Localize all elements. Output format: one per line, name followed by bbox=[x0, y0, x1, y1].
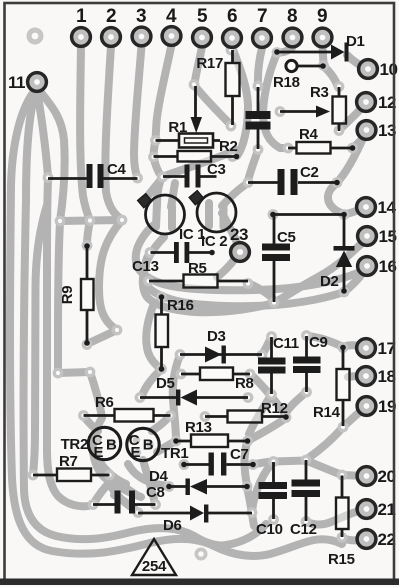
resistor R16 bbox=[156, 294, 194, 372]
wire pad19 to R14 bottom bbox=[344, 406, 367, 426]
wire C1 bottom to C2 left bbox=[248, 150, 258, 181]
diode D5 bbox=[140, 375, 248, 406]
wire R6 left to TR2 bbox=[84, 416, 99, 431]
wire R1 left to R2 left to C3 left bbox=[154, 140, 163, 177]
resistor R2 bbox=[154, 138, 240, 162]
wire C4 left pad down to C8 bbox=[47, 180, 92, 506]
svg-text:D4: D4 bbox=[149, 468, 169, 485]
resistor R15 bbox=[328, 476, 355, 569]
svg-text:B: B bbox=[106, 437, 117, 454]
wire pad3 to C4 right bbox=[134, 46, 142, 178]
svg-text:8: 8 bbox=[287, 6, 297, 27]
wire pad11 fan mid bbox=[24, 91, 266, 545]
wire pad13 to C2 right bbox=[337, 136, 364, 183]
resistor R3 bbox=[310, 84, 346, 131]
svg-text:7: 7 bbox=[257, 6, 267, 27]
wire pad7 to C1 top bbox=[258, 48, 262, 86]
capacitor C7 bbox=[181, 446, 256, 476]
wire pad5 to arrow pad bbox=[195, 47, 203, 84]
node pad 1 bbox=[72, 28, 91, 47]
node pad 9 bbox=[313, 28, 332, 47]
wire pad6 to R2 right bbox=[232, 47, 248, 156]
wire R4 right to pad13 bbox=[353, 133, 366, 148]
svg-text:R17: R17 bbox=[196, 55, 223, 72]
wire C10 top down to D6 right bbox=[252, 462, 274, 512]
wire TR1 area to D4 left bbox=[128, 464, 168, 486]
wire R13 left to TR1 bbox=[157, 441, 176, 452]
node pad 6 bbox=[223, 29, 242, 48]
node pad 8 bbox=[283, 28, 302, 47]
svg-text:23: 23 bbox=[230, 225, 248, 244]
svg-text:D2: D2 bbox=[320, 273, 339, 290]
node pad 20 bbox=[357, 467, 376, 486]
wire sweep pad15 across board bbox=[143, 240, 365, 312]
resistor R6 bbox=[84, 394, 171, 422]
svg-text:D3: D3 bbox=[207, 328, 226, 345]
svg-text:C9: C9 bbox=[309, 334, 328, 351]
node pad 2 bbox=[102, 28, 121, 47]
wire IC2 pin stubs bbox=[209, 203, 224, 227]
capacitor C8 bbox=[93, 484, 165, 514]
triangle 254 mark bbox=[132, 539, 176, 575]
node pad 13 bbox=[357, 121, 376, 140]
resistor R18 standing bbox=[273, 60, 326, 91]
node pad 12 bbox=[357, 93, 376, 112]
svg-text:IC 2: IC 2 bbox=[201, 233, 227, 250]
wire D2 bottom to pad16 bbox=[344, 270, 365, 292]
resistor R1 bbox=[156, 119, 221, 148]
wire TR2 bottom to D6 left bbox=[103, 470, 137, 511]
svg-text:R9: R9 bbox=[59, 286, 76, 305]
capacitor C2 bbox=[248, 164, 340, 195]
svg-text:1: 1 bbox=[76, 6, 87, 27]
wire sweep pad16 across board bbox=[144, 237, 344, 306]
node pad 19 bbox=[357, 397, 376, 416]
svg-text:R7: R7 bbox=[59, 453, 78, 470]
wire R7 right to TR area bbox=[110, 475, 139, 496]
node pad 21 bbox=[357, 500, 376, 519]
node pad 7 bbox=[253, 29, 272, 48]
wire R13 right down to D4 right bbox=[244, 441, 247, 485]
resistor R4 bbox=[288, 126, 355, 154]
wire C13 left into band bbox=[146, 253, 150, 266]
svg-text:C2: C2 bbox=[300, 164, 319, 181]
arrow at R3 bbox=[280, 106, 330, 118]
svg-text:C11: C11 bbox=[273, 335, 299, 352]
capacitor C1 bbox=[246, 87, 271, 149]
svg-text:11: 11 bbox=[8, 73, 25, 92]
resistor R14 bbox=[313, 345, 350, 426]
svg-text:R2: R2 bbox=[219, 138, 238, 155]
svg-text:TR2: TR2 bbox=[61, 436, 88, 453]
wire R9 bottom diagonal bbox=[87, 330, 117, 344]
wire R8 right down to R12 right bbox=[250, 374, 286, 417]
resistor R8 bbox=[181, 368, 254, 393]
wire pad2 down bbox=[105, 46, 122, 220]
svg-text:2: 2 bbox=[106, 6, 116, 27]
capacitor C9 bbox=[293, 334, 328, 392]
diode D6 bbox=[138, 505, 252, 535]
wire C4branch down to R7 bbox=[33, 205, 47, 474]
node pad 18 bbox=[357, 367, 376, 386]
resistor R13 bbox=[173, 419, 250, 447]
node pad 15 bbox=[358, 227, 377, 246]
svg-text:9: 9 bbox=[317, 6, 327, 27]
svg-text:E: E bbox=[93, 444, 103, 461]
svg-text:C10: C10 bbox=[256, 521, 283, 538]
svg-text:C12: C12 bbox=[290, 521, 317, 538]
capacitor C3 bbox=[163, 161, 226, 188]
svg-text:R6: R6 bbox=[95, 394, 114, 411]
svg-text:C3: C3 bbox=[207, 161, 226, 178]
svg-text:R5: R5 bbox=[188, 260, 207, 277]
wire R14 bottom down to C12 top bbox=[307, 427, 343, 459]
wire 374 row down to TR2 bbox=[90, 372, 110, 481]
wire pad18 stub bbox=[348, 376, 366, 377]
wire C5 top to D2 top bbox=[270, 212, 347, 218]
wire pad17 to R14 top to C9 top bbox=[307, 336, 366, 348]
transistor TR2 bbox=[61, 427, 121, 461]
IC1 can bbox=[138, 194, 206, 243]
wire D4 right down to wave bbox=[247, 487, 254, 526]
wire junction to R9 top bbox=[87, 221, 90, 245]
svg-text:R3: R3 bbox=[310, 84, 329, 101]
mount pad top-left bbox=[27, 28, 44, 45]
wire D6 left up-left bbox=[114, 495, 138, 513]
mount pad bottom-mid bbox=[195, 548, 208, 561]
wire TR tangle a bbox=[110, 481, 141, 497]
svg-text:C5: C5 bbox=[277, 229, 296, 246]
svg-text:254: 254 bbox=[142, 558, 167, 575]
capacitor C5 bbox=[262, 215, 296, 303]
svg-text:C7: C7 bbox=[230, 446, 249, 463]
capacitor C10 bbox=[256, 462, 287, 538]
wire C12 top to R15 top to pad20 bbox=[306, 461, 367, 477]
wire pad8 to D1 left bbox=[277, 47, 293, 53]
svg-text:R8: R8 bbox=[235, 375, 254, 392]
resistor R17 bbox=[196, 50, 239, 125]
capacitor C4 bbox=[48, 161, 138, 188]
wire R5 right to C5 bottom bbox=[248, 283, 274, 300]
svg-text:R13: R13 bbox=[185, 419, 212, 436]
svg-text:C8: C8 bbox=[146, 484, 165, 501]
IC2 can bbox=[189, 191, 236, 250]
svg-text:5: 5 bbox=[197, 6, 208, 27]
wire C7 right to C10 top bbox=[253, 462, 273, 465]
svg-text:B: B bbox=[143, 437, 154, 454]
wire junction 60 down to 374 row bbox=[58, 222, 60, 373]
node pad 22 bbox=[357, 530, 376, 549]
wire C9 bottom to R12 right bbox=[286, 392, 307, 413]
svg-text:6: 6 bbox=[227, 6, 237, 27]
svg-text:TR1: TR1 bbox=[161, 445, 188, 462]
svg-text:E: E bbox=[131, 444, 141, 461]
wire 374 row horizontal bbox=[58, 372, 90, 373]
wire pad11 to junction 60 bbox=[39, 90, 65, 221]
wire diagonal under R1 R2 bbox=[162, 150, 236, 177]
resistor R12 bbox=[205, 400, 289, 423]
wire TR1 bottom to C8 right bbox=[143, 460, 155, 503]
wire pad23 stub bbox=[217, 252, 240, 277]
wire C12 top to C10 top bbox=[274, 461, 307, 462]
via pads bbox=[43, 172, 54, 183]
wire R16 bottom to D5 left bbox=[142, 369, 162, 396]
node pad 10 bbox=[359, 60, 378, 79]
wire pad1 down bbox=[80, 46, 90, 221]
resistor R7 bbox=[33, 453, 110, 481]
svg-text:3: 3 bbox=[136, 6, 146, 27]
node pad 23 bbox=[231, 243, 250, 262]
svg-text:D6: D6 bbox=[163, 517, 182, 534]
node pad 11 bbox=[28, 73, 47, 92]
wire pad4 to R1 left bbox=[156, 45, 172, 140]
wire arrow pad to R17 bottom bbox=[194, 85, 231, 125]
node pad 16 bbox=[358, 257, 377, 276]
wire C3 left down to IC1 tab bbox=[148, 177, 163, 196]
node pad 14 bbox=[357, 198, 376, 217]
resistor R9 bbox=[59, 243, 94, 346]
svg-text:4: 4 bbox=[166, 6, 177, 27]
wire C8 left up bbox=[93, 482, 110, 505]
wire R6 right to TR1 bbox=[152, 415, 171, 431]
wire pad21 to C12 bottom bbox=[306, 509, 367, 525]
wire pad11 to C4 left bbox=[37, 90, 48, 177]
svg-text:D1: D1 bbox=[346, 33, 365, 50]
node pad 4 bbox=[162, 27, 181, 46]
svg-text:R1: R1 bbox=[168, 119, 187, 136]
capacitor C11 bbox=[258, 335, 299, 394]
adjust arrow at R1 bbox=[191, 86, 203, 133]
wire pad9 to R18 right bbox=[323, 47, 324, 64]
wire pad22 to R15 bottom bbox=[342, 538, 367, 540]
wire C11 bottom to R13 right bbox=[249, 395, 272, 435]
wire pad11 fan left outer bbox=[10, 89, 342, 556]
diode D4 bbox=[149, 468, 250, 495]
resistor R5 bbox=[149, 260, 248, 288]
node pad 17 bbox=[357, 339, 376, 358]
wire D1 to pad10 bbox=[347, 55, 366, 68]
wire C2 right sweep to D2 top junction bbox=[328, 183, 344, 214]
svg-text:C13: C13 bbox=[132, 258, 159, 275]
svg-text:R16: R16 bbox=[167, 297, 194, 314]
node pad 3 bbox=[132, 27, 151, 46]
diode D3 bbox=[180, 328, 262, 364]
wire D1 left down to R4 left bbox=[263, 53, 288, 148]
wire junction row horizontal bbox=[60, 220, 122, 221]
wire TR tangle b bbox=[101, 464, 126, 484]
capacitor C12 bbox=[290, 460, 320, 538]
svg-text:R18: R18 bbox=[273, 74, 300, 91]
svg-text:C4: C4 bbox=[107, 161, 127, 178]
wire IC1 pin stubs bbox=[156, 204, 172, 228]
wire pad16 band strand bbox=[136, 225, 365, 290]
wire IC2 pins down to pad23 bbox=[222, 213, 239, 247]
wire D2 top to pad14 bbox=[344, 208, 364, 215]
svg-text:R15: R15 bbox=[328, 551, 355, 568]
wire C11 top to D3 right bbox=[262, 337, 272, 356]
transistor TR1 bbox=[127, 428, 189, 462]
svg-text:D5: D5 bbox=[156, 375, 175, 392]
wire D3 left pad down bbox=[173, 355, 180, 440]
svg-text:R12: R12 bbox=[261, 400, 288, 417]
wire R12 right down to R13 right bbox=[248, 418, 287, 441]
wire IC2 top right to C2 left bbox=[222, 183, 248, 206]
wire junction 122 down to pad330 bbox=[99, 220, 122, 330]
wire C5 bottom sweep left bbox=[146, 306, 161, 369]
svg-text:R14: R14 bbox=[313, 404, 341, 421]
wire IC1 pins up bbox=[157, 182, 175, 207]
wire R3 bottom to pad12 bbox=[339, 105, 365, 130]
diode D2 bbox=[320, 215, 355, 294]
wire R18 right to R3 top bbox=[324, 66, 338, 86]
node pad 5 bbox=[193, 28, 212, 47]
svg-text:R4: R4 bbox=[299, 126, 319, 143]
diode D1 bbox=[274, 33, 364, 62]
capacitor C13 bbox=[132, 242, 215, 275]
